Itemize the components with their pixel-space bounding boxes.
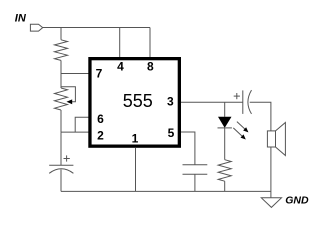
ground: [261, 198, 281, 208]
svg-text:7: 7: [96, 67, 103, 81]
op-amp U1 555 timer body: [90, 59, 179, 146]
potentiometer R2: [55, 88, 68, 110]
wire LED cathode to R3: [224, 128, 226, 160]
connector tag IN: [30, 24, 42, 31]
wire R1 top lead: [60, 28, 62, 40]
resistor R3: [218, 160, 231, 182]
wire top rail from IN to pin8 riser: [43, 27, 150, 29]
svg-text:1: 1: [132, 131, 139, 145]
wire LED anode lead: [224, 102, 226, 117]
potentiometer R2 wiper link: [61, 87, 75, 102]
wire pin 1 lead: [135, 148, 137, 191]
wire R3 bottom lead: [224, 181, 226, 191]
wire C3 to speaker corner: [250, 102, 271, 131]
wire C2 bottom lead: [194, 174, 196, 191]
LED emission arrow 1: [235, 120, 250, 134]
wire pin 2: [61, 131, 89, 133]
svg-text:3: 3: [167, 95, 174, 109]
wire bottom rail: [61, 190, 271, 192]
svg-text:555: 555: [123, 91, 153, 111]
wire pin 7: [61, 73, 89, 75]
svg-text:8: 8: [147, 60, 154, 74]
LED D1: [218, 117, 232, 128]
svg-text:5: 5: [168, 126, 175, 140]
wire pin 5: [181, 132, 195, 165]
wire pin8 riser: [149, 28, 151, 58]
wire pin4 riser: [119, 28, 121, 58]
speaker SP1: [267, 131, 275, 147]
wire pin 3: [181, 101, 243, 103]
capacitor C1 polarized: [49, 164, 73, 166]
wire junction to pot top: [60, 74, 62, 89]
wire pin 6: [75, 117, 89, 132]
svg-text:2: 2: [97, 129, 104, 143]
capacitor C2: [183, 164, 208, 166]
svg-text:6: 6: [97, 112, 104, 126]
wire pin2 junction down to C1: [60, 132, 62, 165]
svg-text:4: 4: [117, 60, 124, 74]
svg-text:IN: IN: [15, 13, 27, 25]
wire C1 bottom lead: [60, 170, 62, 192]
wire R1 bottom to pin7 junction: [60, 60, 62, 73]
LED emission arrow 2: [232, 126, 248, 141]
wire pot bottom to pin2 junction: [60, 110, 62, 132]
capacitor C3 polarized: [242, 90, 244, 114]
svg-text:GND: GND: [285, 194, 309, 206]
resistor R1: [55, 40, 68, 61]
wire speaker to ground: [270, 147, 272, 198]
